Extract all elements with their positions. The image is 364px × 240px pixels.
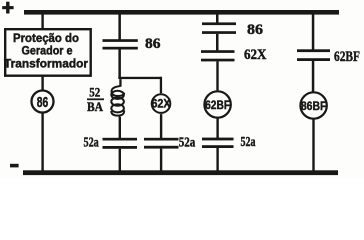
- label 52a (2): [179, 135, 196, 150]
- svg-text:86: 86: [37, 94, 49, 111]
- relay coil 86BF: [300, 92, 326, 118]
- wire relay coil 62BF to contact 52a (3): [216, 118, 218, 138]
- relay coil 86: [32, 91, 54, 113]
- wire bus to contact 86 (branch 3): [216, 14, 219, 23]
- wire bus to contact 62BF (branch 4): [312, 14, 315, 50]
- label 52a (1): [84, 135, 99, 150]
- wire contact 62X to relay coil 62BF: [216, 61, 218, 90]
- svg-text:BA: BA: [87, 100, 103, 114]
- wire junction horizontal: [118, 77, 161, 79]
- contact 52a (3): [202, 138, 234, 148]
- contact 52a (2): [144, 138, 179, 149]
- plus terminal: [2, 2, 13, 14]
- wire junction to relay coil 62X: [160, 77, 162, 94]
- contact 62BF (branch 4): [297, 49, 330, 61]
- svg-text:52a: 52a: [84, 135, 99, 150]
- wire contact 62BF to relay coil 86BF: [312, 61, 315, 92]
- wire between contact 86 and contact 62X (branch 3): [216, 34, 219, 51]
- svg-text:Proteção do: Proteção do: [13, 33, 79, 45]
- wire contact 86 to junction: [118, 50, 121, 80]
- svg-text:52: 52: [89, 86, 100, 100]
- svg-text:Transformador: Transformador: [4, 59, 89, 71]
- label 86 (branch 2): [145, 36, 161, 52]
- label 62X (branch 3): [244, 47, 267, 63]
- label 62BF (branch 4): [334, 49, 360, 65]
- svg-text:52a: 52a: [241, 134, 256, 149]
- contact 86 (branch 3): [202, 22, 236, 34]
- wire contact 52a (1) to bottom bus: [119, 149, 121, 171]
- wire trip coil to contact 52a (1): [119, 117, 121, 138]
- svg-text:52a: 52a: [179, 135, 196, 150]
- svg-text:86: 86: [247, 22, 263, 38]
- svg-text:62X: 62X: [152, 99, 171, 111]
- svg-text:86: 86: [145, 36, 161, 52]
- label 52a (3): [241, 134, 256, 149]
- relay coil 62BF: [204, 91, 230, 117]
- relay coil 62X: [152, 94, 171, 113]
- wire relay coil 86BF to bottom bus: [312, 119, 314, 171]
- svg-text:Gerador e: Gerador e: [22, 46, 73, 58]
- svg-text:62BF: 62BF: [205, 98, 230, 112]
- protection function box: Protecao do Gerador e Transformador: [4, 29, 91, 75]
- wire bus to contact 86 (branch 2): [118, 14, 121, 40]
- wire contact 52a (3) to bottom bus: [216, 148, 218, 171]
- wire bus to box: [41, 14, 43, 29]
- contact 52a (1): [103, 138, 138, 149]
- contact 86 (branch 2): [103, 39, 138, 49]
- trip coil 52/BA (inductor, 4 turns): [111, 86, 124, 119]
- contact 62X (branch 3): [201, 50, 235, 61]
- svg-text:86BF: 86BF: [301, 99, 327, 113]
- svg-text:62BF: 62BF: [334, 49, 360, 65]
- label 86 (branch 3): [247, 22, 263, 38]
- wire junction to trip coil 52/BA: [119, 79, 121, 87]
- minus terminal: [10, 164, 19, 168]
- svg-text:62X: 62X: [244, 47, 267, 63]
- label 52/BA: [87, 86, 104, 114]
- wire top bus (positive rail): [24, 10, 339, 15]
- wire relay coil 86 to bottom bus: [41, 113, 43, 171]
- wire contact 52a (2) to bottom bus: [160, 149, 162, 171]
- wire bottom bus (negative rail): [23, 170, 338, 175]
- wire box to relay coil 86: [41, 76, 43, 90]
- wire relay coil 62X to contact 52a (2): [160, 114, 162, 138]
